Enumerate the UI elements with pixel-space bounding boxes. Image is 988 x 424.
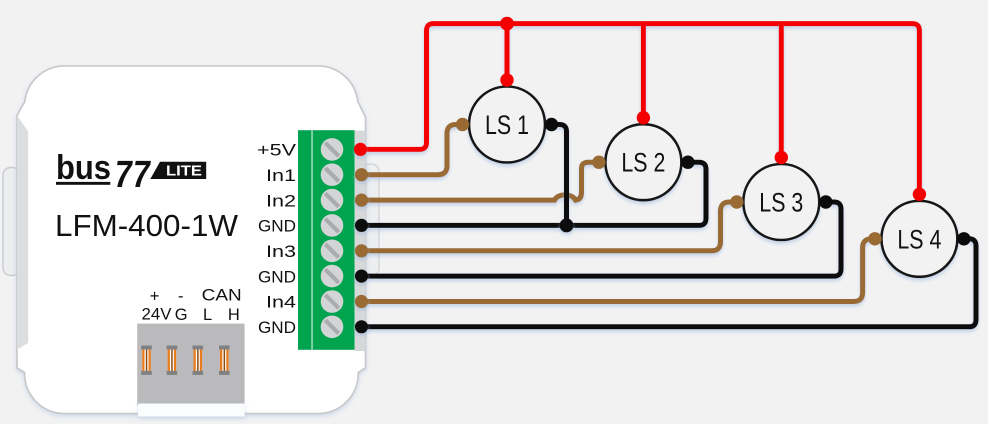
svg-text:LITE: LITE bbox=[166, 164, 202, 180]
screw terminal GND2 bbox=[321, 265, 344, 288]
CAN connector body bbox=[137, 324, 244, 406]
svg-text:GND: GND bbox=[258, 318, 296, 337]
svg-text:GND: GND bbox=[258, 267, 296, 286]
node GND junction bbox=[560, 218, 574, 232]
svg-text:bus: bus bbox=[56, 149, 111, 187]
CAN contact G bbox=[167, 346, 178, 375]
sensor LS 4 bbox=[881, 201, 957, 277]
sensor LS 2 bbox=[605, 124, 681, 200]
wire +5V drop to LS 2 bbox=[641, 24, 646, 118]
CAN connector bottom strip bbox=[138, 404, 244, 417]
wire In3 brown bbox=[362, 202, 737, 251]
node LS 1 signal bbox=[456, 118, 469, 131]
CAN contact 24V bbox=[141, 346, 152, 375]
wire GND from LS 3 black bbox=[362, 202, 842, 276]
screw terminal In2 bbox=[321, 189, 344, 212]
wire In4 brown bbox=[362, 239, 875, 302]
svg-text:LS 4: LS 4 bbox=[897, 224, 941, 254]
right mounting tab bbox=[362, 164, 379, 276]
LITE badge bbox=[150, 162, 206, 179]
wire +5V drop to LS 1 bbox=[505, 24, 510, 80]
svg-text:In3: In3 bbox=[266, 242, 296, 261]
node LS 4 power bbox=[913, 188, 926, 201]
node In4 terminal bbox=[355, 295, 368, 308]
node LS 2 ground bbox=[681, 156, 694, 169]
screw terminal GND3 bbox=[321, 316, 344, 339]
node GND2 terminal bbox=[355, 270, 368, 283]
svg-text:+: + bbox=[150, 288, 160, 306]
screw terminal In1 bbox=[321, 163, 344, 186]
svg-text:LS 2: LS 2 bbox=[621, 148, 665, 178]
terminal block divider line bbox=[311, 130, 312, 350]
svg-text:LFM-400-1W: LFM-400-1W bbox=[55, 208, 239, 243]
node GND1 terminal bbox=[355, 219, 368, 232]
svg-text:-: - bbox=[178, 288, 184, 306]
node In2 terminal bbox=[355, 194, 368, 207]
node LS 4 ground bbox=[957, 232, 970, 245]
svg-text:24V: 24V bbox=[142, 306, 172, 324]
node GND3 terminal bbox=[355, 320, 368, 333]
CAN contact L bbox=[193, 346, 204, 375]
sensor LS 1 bbox=[469, 87, 545, 163]
svg-text:In2: In2 bbox=[266, 191, 296, 210]
left mounting tab bbox=[3, 168, 20, 276]
svg-text:G: G bbox=[175, 306, 188, 324]
bus77 logo underline bbox=[56, 182, 110, 185]
wire GND from LS 1 black bbox=[552, 125, 567, 226]
wire +5V drop to LS 3 bbox=[779, 24, 784, 158]
svg-text:GND: GND bbox=[258, 217, 296, 236]
node +5V terminal bbox=[354, 143, 367, 156]
node LS 1 power bbox=[500, 73, 513, 86]
body right side shading band bbox=[355, 131, 366, 352]
body left side shading band bbox=[17, 116, 28, 350]
node LS 3 power bbox=[775, 151, 788, 164]
node LS 1 ground bbox=[545, 118, 558, 131]
screw terminal GND1 bbox=[321, 214, 344, 237]
svg-text:+5V: +5V bbox=[257, 141, 297, 160]
node +5V bus junction bbox=[500, 17, 514, 31]
node LS 4 signal bbox=[868, 232, 881, 245]
node LS 2 power bbox=[637, 111, 650, 124]
screw terminal In3 bbox=[321, 240, 344, 263]
node LS 3 ground bbox=[819, 195, 832, 208]
wire In2 brown with hop over black wire bbox=[362, 162, 599, 200]
svg-text:77: 77 bbox=[111, 153, 153, 196]
wire GND from LS 4 black bbox=[362, 239, 977, 327]
sensor LS 3 bbox=[743, 164, 819, 240]
svg-text:In4: In4 bbox=[266, 293, 296, 312]
terminal block bbox=[298, 130, 355, 350]
node In1 terminal bbox=[355, 168, 368, 181]
node LS 3 signal bbox=[730, 195, 743, 208]
svg-text:In1: In1 bbox=[266, 166, 296, 185]
screw terminal In4 bbox=[321, 290, 344, 313]
screw terminal +5V bbox=[321, 138, 344, 161]
bus77 logo wordmark bbox=[56, 149, 153, 196]
CAN contact H bbox=[219, 346, 230, 375]
svg-text:LS 3: LS 3 bbox=[759, 188, 803, 218]
svg-text:LS 1: LS 1 bbox=[485, 110, 529, 140]
wire GND from LS 2 black bbox=[362, 162, 707, 225]
node In3 terminal bbox=[355, 244, 368, 257]
device LFM-400-1W body bbox=[17, 66, 366, 414]
svg-text:H: H bbox=[228, 306, 240, 324]
wire +5V red bus bbox=[360, 24, 919, 195]
svg-text:L: L bbox=[203, 306, 212, 324]
wire In1 brown bbox=[362, 125, 463, 175]
svg-text:CAN: CAN bbox=[202, 287, 242, 305]
node LS 2 signal bbox=[592, 156, 605, 169]
